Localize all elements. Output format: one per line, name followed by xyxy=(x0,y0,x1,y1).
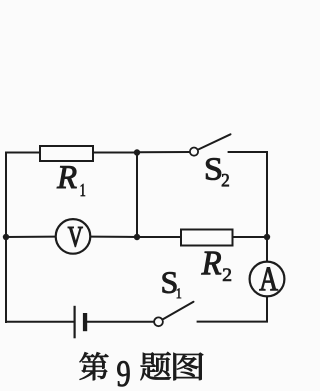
label R1 letter R xyxy=(57,166,77,188)
voltmeter V letter xyxy=(68,227,83,247)
wire voltmeter to middle junction xyxy=(91,236,137,238)
junction node left rail / voltmeter wire xyxy=(3,234,9,240)
wire bottom: battery to switch S1 xyxy=(87,321,155,323)
wire bottom left: left rail to battery xyxy=(6,321,74,323)
label R2 subscript 2 xyxy=(223,269,231,281)
label S1 letter S xyxy=(163,272,177,293)
switch S2 lever blade xyxy=(198,134,231,149)
battery negative plate (short thick) xyxy=(83,313,87,331)
voltmeter V body xyxy=(56,219,91,254)
resistor R1 xyxy=(40,146,93,161)
caption character 图 xyxy=(174,353,204,381)
label R2 letter R xyxy=(202,252,222,275)
switch S1 lever blade xyxy=(163,302,194,320)
caption character 题 xyxy=(141,352,171,380)
junction node middle branch / R2 wire xyxy=(134,234,140,240)
ammeter A letter xyxy=(260,268,278,291)
wire middle branch vertical (node B) xyxy=(136,153,138,238)
wire top junction to switch S2 xyxy=(137,151,190,153)
label S2 subscript 2 xyxy=(222,174,229,186)
wire top left segment xyxy=(6,153,40,323)
ammeter A body xyxy=(250,262,285,297)
switch S2 pivot contact xyxy=(190,148,198,156)
label R1 subscript 1 xyxy=(81,184,85,196)
label S2 letter S xyxy=(206,158,221,180)
caption character 9 xyxy=(117,361,129,386)
resistor R2 xyxy=(181,230,233,246)
caption character 第 xyxy=(80,352,109,380)
wire S2 stub to top-right corner and down right side xyxy=(229,152,267,237)
wire R2 to right junction xyxy=(233,236,268,238)
wire middle junction to R2 xyxy=(137,236,181,238)
wire R1 to top junction xyxy=(93,152,137,154)
switch S1 pivot contact xyxy=(154,317,163,326)
junction node right rail / R2 wire xyxy=(264,234,270,240)
junction node at R1 output / middle branch top xyxy=(134,149,140,155)
wire middle left: left rail to voltmeter xyxy=(6,236,55,238)
label S1 subscript 1 xyxy=(177,289,181,299)
wire right junction down to ammeter xyxy=(266,237,268,262)
wire ammeter to bottom-right corner and left to switch S1 xyxy=(198,297,267,322)
battery positive plate (long) xyxy=(73,306,75,339)
